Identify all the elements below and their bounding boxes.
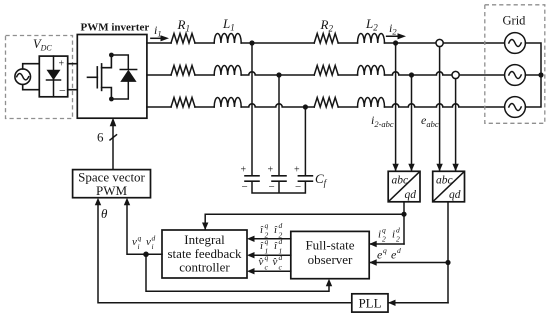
resistor R2 phase A (314, 34, 338, 44)
svg-text:+: + (294, 165, 300, 176)
node i2 tap B (409, 72, 414, 77)
node i2qd junction (401, 212, 406, 217)
svg-text:v: v (146, 236, 151, 248)
node cap tap A (249, 40, 254, 45)
node inverter top junction (109, 53, 114, 58)
svg-text:q: q (382, 226, 386, 235)
abc/qd transform block T2 (433, 171, 465, 202)
wire observer to controller vchat (247, 268, 291, 274)
svg-text:−: − (295, 181, 301, 193)
svg-text:d: d (396, 226, 400, 235)
capacitor Cf phase C (294, 165, 312, 194)
abc/qd transform block T1 (388, 171, 420, 202)
resistor R2 phase C (314, 98, 338, 108)
wire diode branch top (111, 55, 128, 69)
svg-text:+: + (59, 59, 65, 70)
svg-text:q: q (383, 246, 387, 255)
wire cap drop C (304, 107, 306, 175)
resistor R1 phase B (171, 66, 195, 76)
svg-text:q: q (265, 237, 269, 246)
resistor R2 phase B (314, 66, 338, 76)
AC source grid phase A (505, 33, 526, 54)
wire phase C (147, 104, 505, 107)
node eqd junction (445, 260, 450, 265)
label e q d inputs (377, 246, 401, 262)
wire i2 measurement B (408, 75, 414, 171)
wire eqd to observer (369, 259, 448, 265)
transistor Q1 (88, 55, 112, 99)
wire e measurement B (452, 79, 458, 172)
svg-text:controller: controller (179, 260, 230, 275)
wire cap drop A (251, 43, 253, 175)
wire e measurement A (436, 47, 442, 172)
wire cap drop B (278, 75, 280, 175)
wire rectifier to inverter bottom (68, 89, 78, 91)
wire i2 measurement A (392, 43, 398, 171)
resistor R1 phase A (171, 34, 195, 44)
node cap tap B (276, 72, 281, 77)
svg-text:qd: qd (405, 189, 417, 201)
wire theta PLL to SVPWM (95, 198, 352, 303)
label i2 with arrow (387, 21, 406, 39)
svg-text:Grid: Grid (503, 14, 527, 28)
inductor L2 phase C (358, 98, 385, 108)
svg-text:i: i (392, 229, 395, 241)
inductor L2 phase A (358, 34, 385, 44)
wire eqd to PLL (388, 300, 448, 306)
node cap tap C (303, 104, 308, 109)
svg-text:PLL: PLL (358, 296, 381, 311)
svg-text:abc: abc (392, 175, 409, 187)
svg-text:v: v (132, 236, 137, 248)
Full-state observer block (291, 231, 369, 278)
wire grid neutral bus (525, 43, 541, 107)
PLL block (352, 294, 388, 312)
svg-text:2: 2 (382, 235, 386, 244)
svg-text:−: − (242, 181, 248, 193)
node e tap A voltage probe (436, 39, 443, 46)
svg-text:d: d (397, 246, 401, 255)
node i2 tap A (393, 40, 398, 45)
node inverter bottom junction (109, 97, 114, 102)
AC source G0 (15, 69, 31, 85)
svg-text:−: − (59, 84, 66, 98)
wire vi controller to SVPWM (124, 198, 162, 255)
label vi q d (132, 234, 156, 252)
wire diode branch bottom (111, 82, 128, 99)
svg-text:−: − (269, 181, 275, 193)
label i2hat estimates (260, 221, 283, 240)
svg-text:θ: θ (101, 206, 108, 221)
inductor L1 phase C (214, 98, 241, 108)
DC source dashed enclosure (6, 36, 73, 119)
svg-text:abc: abc (436, 175, 453, 187)
svg-text:v̂: v̂ (258, 256, 263, 268)
svg-text:i: i (378, 229, 381, 241)
svg-text:i: i (152, 242, 154, 251)
svg-text:Full-state: Full-state (305, 238, 354, 253)
Space vector PWM block (73, 170, 151, 199)
node e tap B voltage probe (452, 71, 459, 78)
svg-text:PWM: PWM (96, 183, 128, 198)
rectifier box (39, 56, 67, 97)
svg-text:v̂: v̂ (272, 256, 277, 268)
resistor R1 phase C (171, 98, 195, 108)
capacitor Cf phase B (268, 165, 287, 194)
wire T2 output (447, 202, 449, 303)
svg-text:+: + (268, 165, 274, 176)
PWM inverter box U1 (77, 35, 147, 119)
svg-text:d: d (279, 237, 283, 246)
wire source bottom (23, 85, 40, 90)
label i1 with arrow (151, 23, 169, 41)
node vi junction (143, 252, 149, 258)
svg-text:q: q (265, 253, 269, 262)
svg-text:d: d (279, 253, 283, 262)
bus 6 gate signals (110, 118, 117, 170)
wire i2qd to observer (369, 241, 404, 247)
wire phase A (147, 42, 505, 44)
label i2 q d inputs (378, 226, 400, 244)
svg-text:d: d (279, 221, 283, 230)
svg-text:PWM inverter: PWM inverter (81, 22, 150, 34)
wire phase B (147, 72, 505, 75)
label i1hat estimates (260, 237, 283, 256)
wire rectifier to inverter top (68, 63, 78, 65)
svg-text:+: + (241, 165, 247, 176)
wire source top (23, 64, 40, 69)
svg-text:q: q (265, 221, 269, 230)
svg-text:qd: qd (449, 189, 461, 201)
inductor L1 phase A (214, 34, 241, 44)
wire T1 output (403, 202, 405, 244)
svg-text:6: 6 (97, 130, 104, 145)
svg-text:Integral: Integral (184, 232, 225, 247)
capacitor Cf phase A (241, 165, 260, 194)
svg-text:2: 2 (396, 235, 400, 244)
wire observer to controller i1hat (247, 252, 291, 258)
inductor L1 phase B (214, 66, 241, 76)
wire capacitor neutral bus (252, 181, 305, 193)
node grid bus (538, 72, 543, 77)
Integral state feedback controller block (162, 230, 247, 278)
label vchat estimates (258, 253, 282, 272)
svg-text:i: i (138, 242, 140, 251)
inductor L2 phase B (358, 66, 385, 76)
diode D2 antiparallel (120, 70, 136, 82)
AC source grid phase C (505, 97, 526, 118)
svg-text:observer: observer (308, 252, 353, 267)
wire i2qd to controller top (202, 214, 404, 230)
AC source grid phase B (505, 65, 526, 86)
diode D1 (47, 56, 61, 97)
wire vi to observer (146, 254, 332, 291)
Grid dashed enclosure (485, 5, 545, 124)
wire observer to controller i2hat (247, 236, 291, 242)
